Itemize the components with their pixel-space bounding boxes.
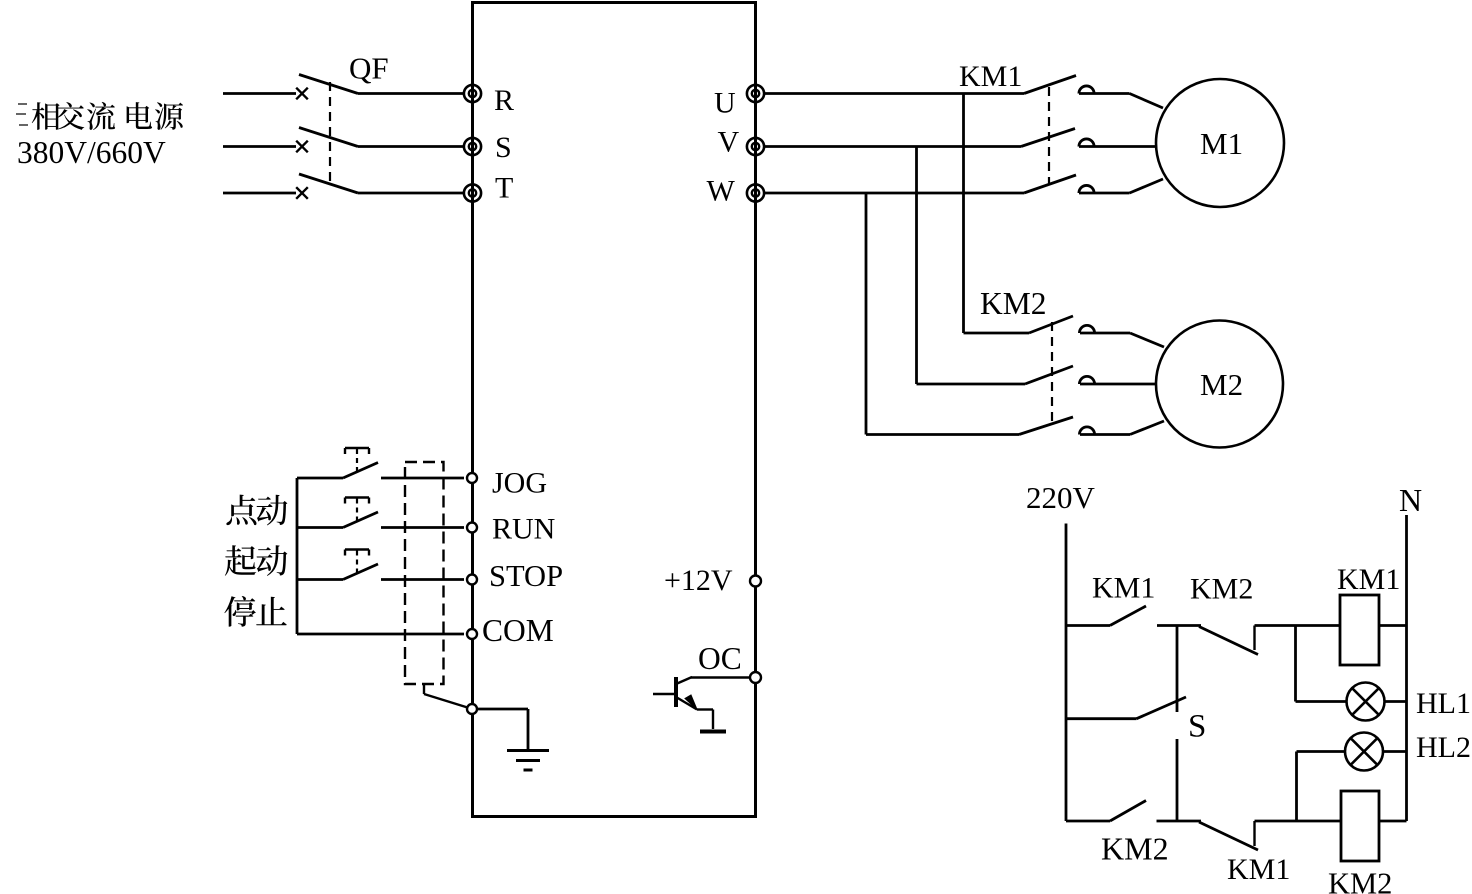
pushbutton STOP actuator xyxy=(345,548,369,550)
breaker QF pole 3 wire out xyxy=(358,192,464,195)
contactor KM1 linkage xyxy=(1048,87,1050,184)
wire row3 b xyxy=(1157,820,1202,823)
wire U tap down xyxy=(962,94,965,334)
shield cable dashed box xyxy=(405,462,444,684)
svg-text:S: S xyxy=(495,131,512,164)
wire row3 c xyxy=(1255,820,1342,823)
wire junction down S lower xyxy=(1176,739,1179,821)
svg-text:N: N xyxy=(1399,482,1422,518)
svg-text:S: S xyxy=(1188,709,1206,745)
breaker QF pole 1 wire in xyxy=(223,92,296,95)
wire W tap down xyxy=(865,193,868,435)
pushbutton RUN wire xyxy=(297,526,343,529)
pushbutton JOG wire xyxy=(297,477,343,480)
wire to earth xyxy=(477,708,528,711)
svg-text:T: T xyxy=(495,172,513,205)
contactor KM1 contact 3 xyxy=(1024,175,1076,193)
svg-text:R: R xyxy=(494,84,514,117)
wire row3 d xyxy=(1379,820,1407,823)
coil KM2 xyxy=(1341,791,1379,861)
wire U out xyxy=(764,92,1024,95)
svg-text:OC: OC xyxy=(698,641,742,676)
svg-text:KM2: KM2 xyxy=(1190,573,1253,606)
contact KM1 NC aux xyxy=(1199,822,1258,850)
wire row1 d xyxy=(1379,624,1407,627)
contact KM2 NO aux xyxy=(1110,801,1146,822)
switch S blade xyxy=(1137,697,1187,719)
terminal shield ground xyxy=(467,704,477,714)
svg-text:U: U xyxy=(714,87,736,120)
svg-text:+12V: +12V xyxy=(664,564,733,597)
wire junction HL1 drop xyxy=(1294,626,1297,702)
wire input bus xyxy=(296,478,299,634)
terminal JOG xyxy=(467,473,477,483)
svg-text:QF: QF xyxy=(349,51,389,86)
svg-text:HL1: HL1 xyxy=(1416,687,1471,720)
wire row1 c xyxy=(1255,624,1341,627)
terminal OC xyxy=(750,672,761,683)
wire HL1 left xyxy=(1296,700,1348,703)
svg-text:HL2: HL2 xyxy=(1416,731,1471,764)
pushbutton JOG actuator xyxy=(345,447,369,449)
contactor KM2 contact 1 xyxy=(1029,316,1073,333)
lamp HL2 xyxy=(1345,733,1383,771)
contact KM2 NC aux xyxy=(1199,627,1258,655)
terminal V xyxy=(747,138,764,155)
transistor ground bar xyxy=(700,730,726,734)
pushbutton JOG blade xyxy=(343,463,378,479)
svg-text:COM: COM xyxy=(482,613,554,648)
svg-text:V: V xyxy=(718,126,740,159)
wire row S xyxy=(1066,717,1137,720)
wire junction HL2 rise xyxy=(1295,752,1298,822)
terminal STOP xyxy=(467,575,477,585)
earth ground xyxy=(507,749,549,752)
terminal T xyxy=(464,184,481,201)
label three-phase AC source (clipped char) xyxy=(18,103,27,105)
shield drain wire xyxy=(423,684,425,694)
breaker QF pole 1 wire out xyxy=(358,92,464,95)
wire left rail 220V xyxy=(1065,524,1068,822)
wire junction down S upper xyxy=(1176,626,1179,713)
svg-text:220V: 220V xyxy=(1026,480,1096,515)
transistor Q1 base xyxy=(674,677,678,707)
coil KM1 xyxy=(1340,595,1379,665)
contactor KM2 contact 2 xyxy=(1025,366,1073,384)
pushbutton STOP wire xyxy=(297,578,343,581)
breaker QF pole 2 blade xyxy=(299,128,358,147)
svg-text:KM2: KM2 xyxy=(1101,831,1169,867)
svg-text:KM2: KM2 xyxy=(980,286,1047,321)
wire HL2 left xyxy=(1297,750,1347,753)
breaker QF linkage xyxy=(329,82,331,186)
svg-text:W: W xyxy=(707,175,736,208)
svg-text:KM1: KM1 xyxy=(1092,572,1155,605)
inverter box U1 xyxy=(473,3,756,817)
wire row1 b xyxy=(1157,624,1201,627)
breaker QF pole 3 blade xyxy=(299,174,358,193)
pushbutton RUN blade xyxy=(343,512,378,528)
label stop (ting zhi) xyxy=(224,596,256,627)
breaker QF pole 1 blade xyxy=(299,75,358,94)
contactor KM2 linkage xyxy=(1051,322,1053,424)
label jog (dian dong) xyxy=(226,495,256,525)
transistor Q1 collector xyxy=(676,677,692,684)
wire V tap down xyxy=(915,147,918,385)
breaker QF pole 1 contact mark xyxy=(296,88,308,100)
terminal COM xyxy=(467,629,477,639)
terminal RUN xyxy=(467,523,477,533)
breaker QF pole 3 contact mark xyxy=(296,187,308,199)
svg-text:STOP: STOP xyxy=(489,559,563,593)
wire COM xyxy=(297,633,464,636)
wire HL1 right xyxy=(1385,700,1407,703)
svg-text:KM2: KM2 xyxy=(1328,867,1392,894)
lamp HL1 xyxy=(1347,683,1385,721)
terminal W xyxy=(747,184,764,201)
svg-text:M1: M1 xyxy=(1200,126,1243,161)
breaker QF pole 2 wire out xyxy=(358,145,464,148)
terminal S xyxy=(464,138,481,155)
wire row3 a xyxy=(1066,820,1110,823)
svg-text:RUN: RUN xyxy=(492,513,555,546)
svg-text:KM1: KM1 xyxy=(1227,853,1290,886)
motor M2 xyxy=(1156,321,1283,448)
terminal +12V xyxy=(750,576,761,587)
svg-text:KM1: KM1 xyxy=(959,60,1022,93)
svg-text:380V/660V: 380V/660V xyxy=(17,135,166,170)
transistor Q1 emitter xyxy=(676,697,697,710)
contactor KM1 contact 2 xyxy=(1021,129,1075,147)
wire right rail N xyxy=(1405,515,1408,821)
svg-text:KM1: KM1 xyxy=(1337,563,1400,596)
contact KM1 NO aux xyxy=(1110,606,1146,626)
contactor KM2 contact 3 xyxy=(1019,417,1073,435)
label start (qi dong) xyxy=(225,545,256,575)
label three-phase AC source text xyxy=(32,102,60,130)
wire row1 a xyxy=(1066,624,1110,627)
terminal U xyxy=(747,85,764,102)
contactor KM1 contact 1 xyxy=(1024,76,1076,94)
motor M1 xyxy=(1156,79,1284,207)
wire V out xyxy=(764,145,1021,148)
breaker QF pole 2 wire in xyxy=(223,145,296,148)
wire W out xyxy=(764,192,1024,195)
svg-text:M2: M2 xyxy=(1200,367,1243,402)
terminal R xyxy=(464,85,481,102)
wire HL2 right xyxy=(1383,750,1407,753)
pushbutton RUN actuator xyxy=(345,496,369,498)
pushbutton STOP blade xyxy=(343,564,378,580)
breaker QF pole 3 wire in xyxy=(223,192,296,195)
svg-text:JOG: JOG xyxy=(492,467,547,500)
breaker QF pole 2 contact mark xyxy=(296,141,308,153)
